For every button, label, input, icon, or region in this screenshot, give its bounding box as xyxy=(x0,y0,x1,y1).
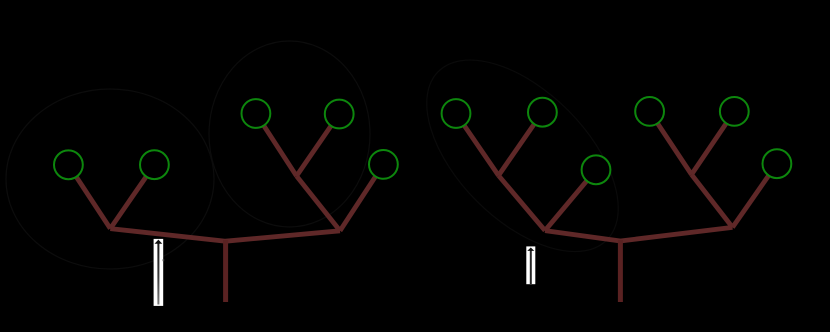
wire Y2-X2 xyxy=(499,176,546,231)
wire A2-Y2 xyxy=(456,114,499,176)
wire B2-Y2 xyxy=(499,112,543,175)
wire E2-W2 xyxy=(692,111,735,174)
stem of tree 1 xyxy=(223,240,228,302)
clade ellipse around C-D cherry of tree 1 xyxy=(209,41,370,227)
tree 2 branches xyxy=(456,111,777,241)
white marker bar 1 xyxy=(154,239,164,306)
wire L1-vertex xyxy=(110,229,225,242)
wire E-R1 xyxy=(340,164,383,230)
node E xyxy=(369,150,398,179)
wire vertex-R1 xyxy=(226,231,340,241)
node B xyxy=(140,150,169,179)
node C xyxy=(242,99,271,128)
node C2 xyxy=(582,155,611,184)
node E2 xyxy=(720,97,749,126)
leaf circles tree 1 xyxy=(54,99,398,179)
node D xyxy=(325,100,354,129)
wire X2-vertex2 xyxy=(545,231,620,241)
node D2 xyxy=(635,97,664,126)
tree 1 branches xyxy=(68,114,383,242)
white marker bar 2 xyxy=(526,246,535,284)
node A2 xyxy=(442,99,471,128)
wire F2-Z2 xyxy=(733,164,777,228)
clade ellipse around left cherry of tree 1 xyxy=(6,89,214,269)
tilted clade ellipse around left clade of tree 2 xyxy=(393,26,653,286)
black arrow in bar 1 xyxy=(155,240,163,305)
stem of tree 2 xyxy=(618,240,623,302)
node F2 xyxy=(763,149,792,178)
wire B-L1 xyxy=(110,165,154,229)
wire CDnode-R1 xyxy=(297,176,341,231)
small dark nick on bar 1 right edge xyxy=(163,259,165,261)
wire D2-W2 xyxy=(650,111,692,174)
wire C-CDnode xyxy=(256,114,297,177)
node B2 xyxy=(528,98,557,127)
wire W2-Z2 xyxy=(692,175,733,228)
wire A-L1 xyxy=(68,165,110,229)
wire D-CDnode xyxy=(297,114,340,176)
leaf circles tree 2 xyxy=(442,97,792,184)
wire C2-X2 xyxy=(545,170,596,231)
node A xyxy=(54,150,83,179)
wire vertex2-Z2 xyxy=(620,227,732,241)
black arrow in bar 2 xyxy=(527,248,534,285)
